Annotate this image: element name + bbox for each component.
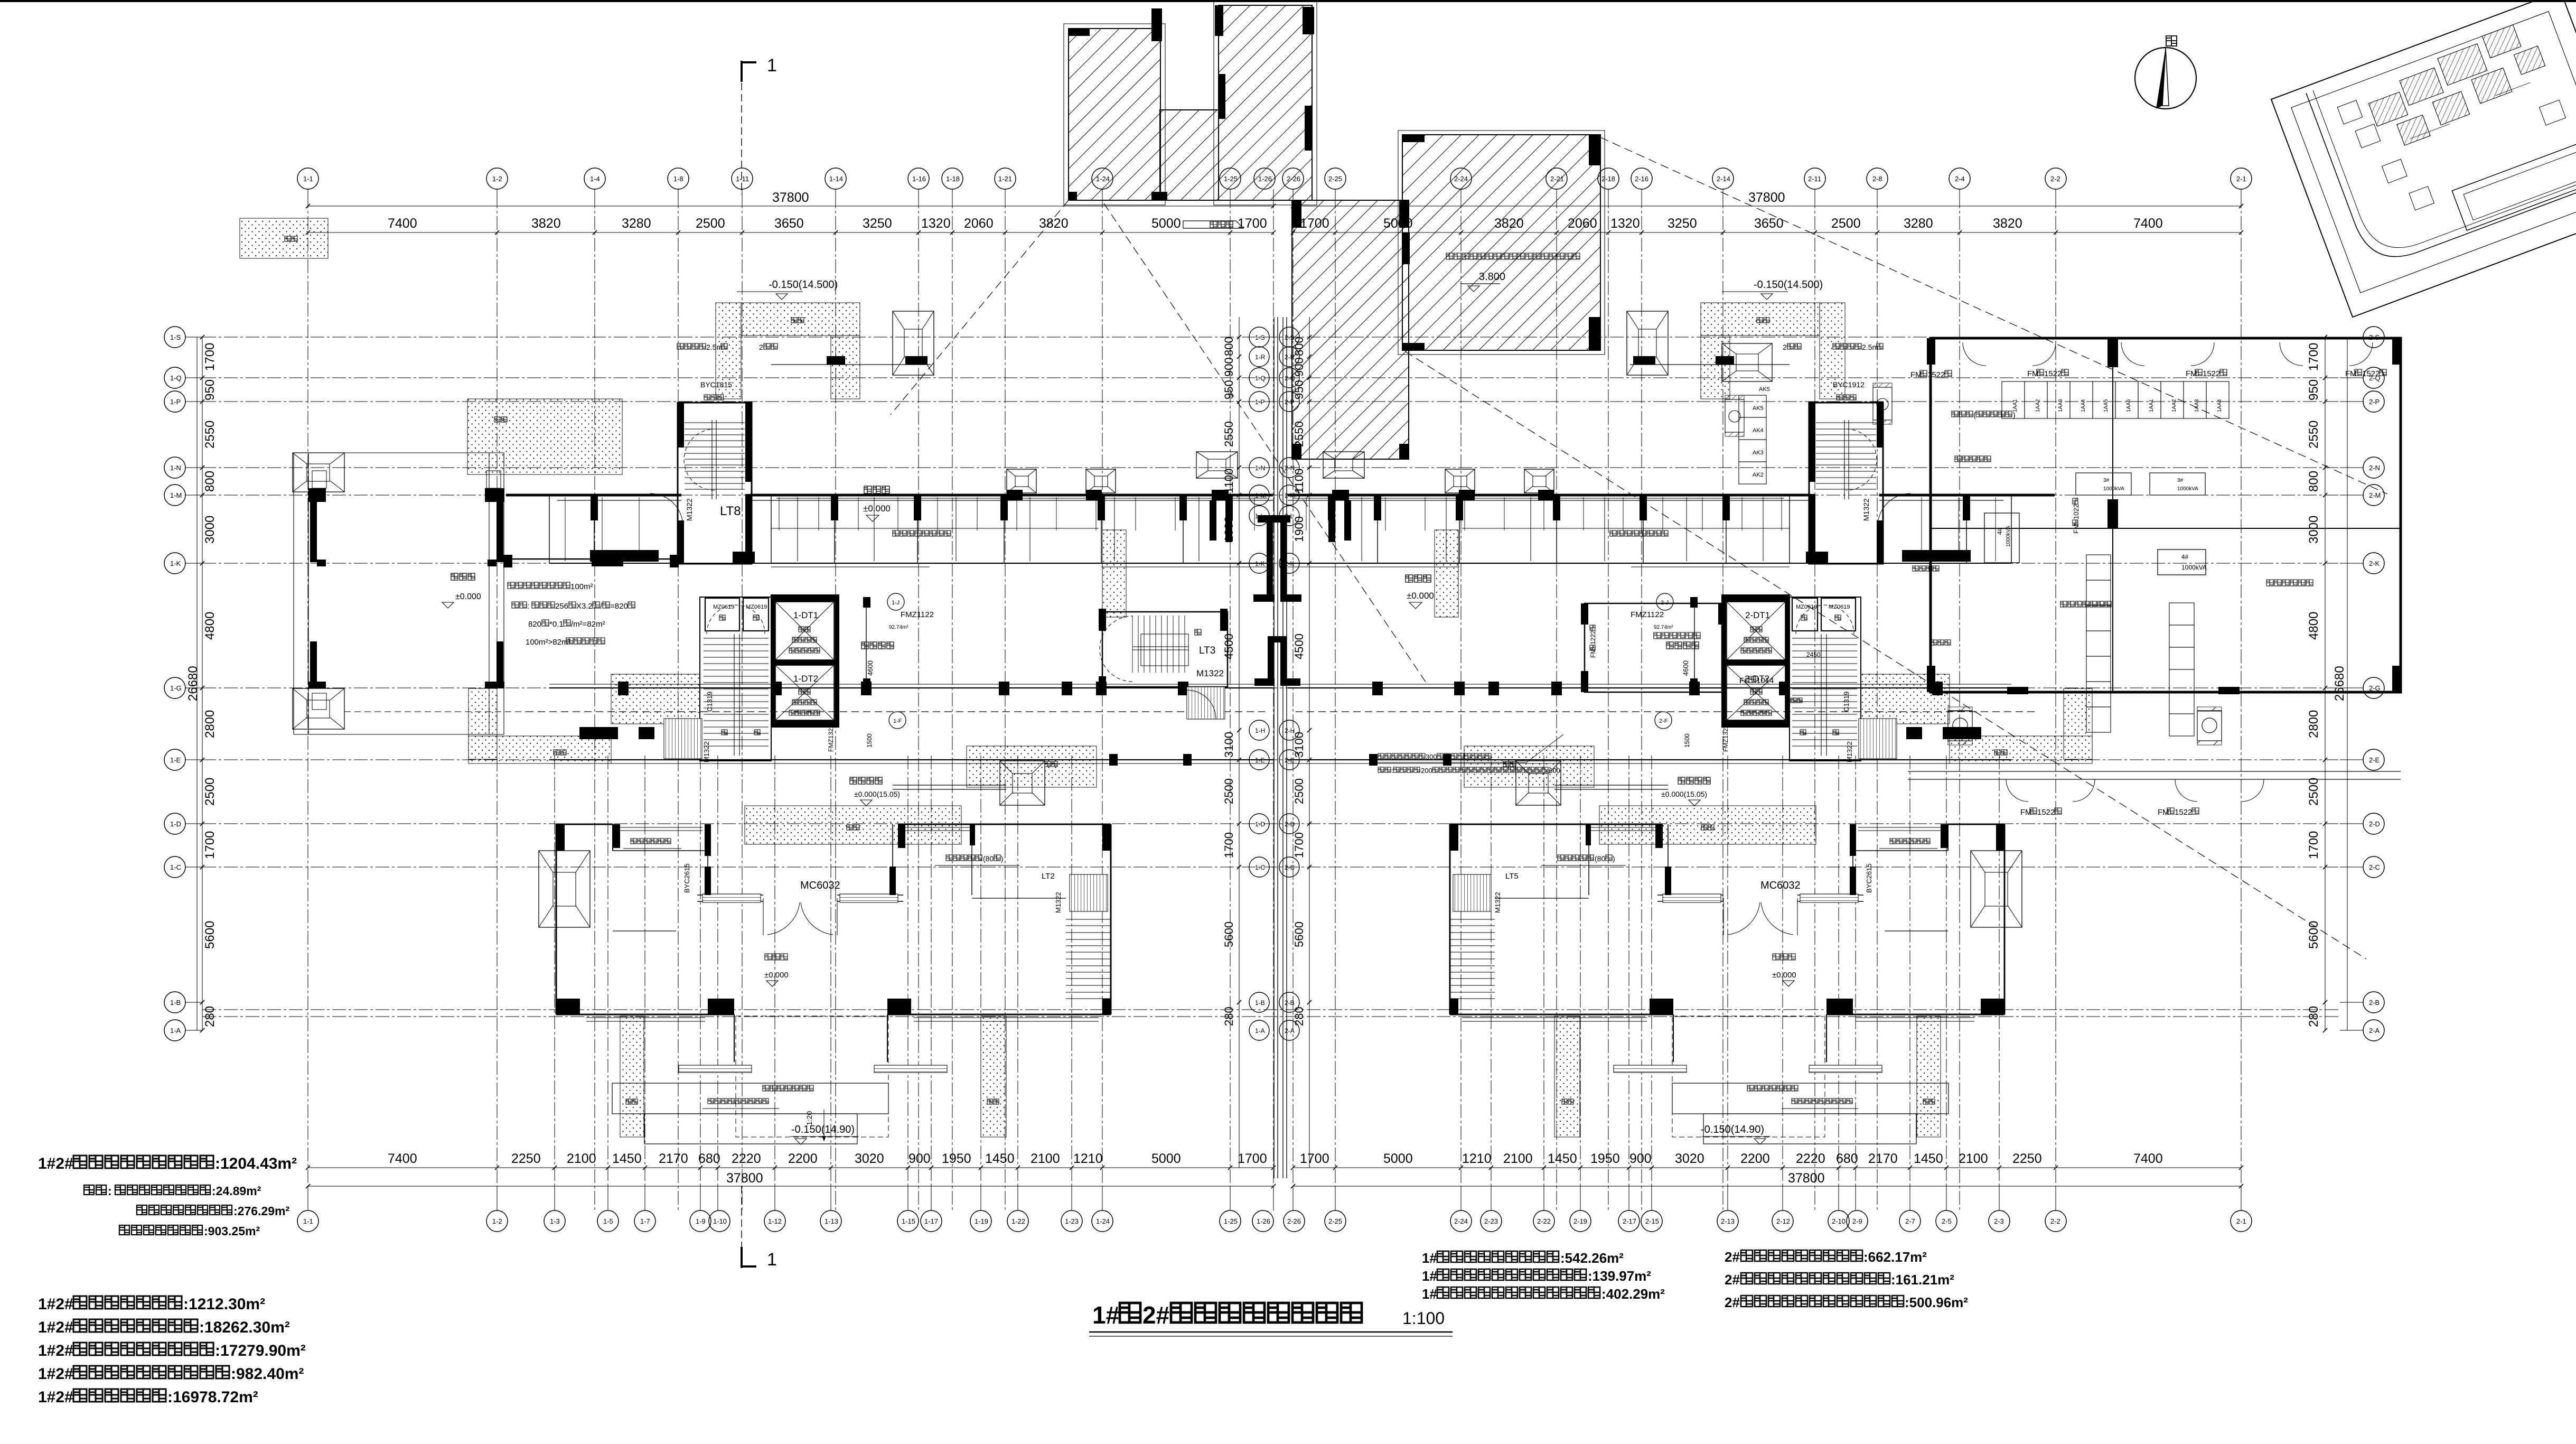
svg-text:1:100: 1:100 [1402,1309,1445,1328]
svg-text:1210: 1210 [1073,1151,1103,1166]
svg-text:1-F: 1-F [893,718,902,724]
svg-text:37800: 37800 [1788,1171,1825,1186]
svg-text:1-3: 1-3 [550,1217,560,1225]
svg-text:1-H: 1-H [1255,727,1265,734]
green stipple far-left above row S [240,218,328,258]
svg-text:MZ0619: MZ0619 [713,604,734,610]
svg-text:1-P: 1-P [1255,398,1265,406]
svg-text:3650: 3650 [774,216,804,231]
svg-text:2170: 2170 [1868,1151,1898,1166]
svg-text:1-15: 1-15 [902,1217,915,1225]
tower glazed front + MC6032 door [1797,895,1863,896]
svg-text:1#2#: 1#2# [38,1389,73,1406]
svg-text:FMZ1322: FMZ1322 [1722,724,1729,752]
svg-text:1700: 1700 [1222,832,1235,858]
svg-text:800: 800 [203,471,217,492]
svg-text:2-DT1: 2-DT1 [1745,610,1770,620]
lobby walls near core [1694,597,1695,687]
bottom dimension chain building 2 [1293,1167,2241,1168]
svg-text:3820: 3820 [1039,216,1069,231]
svg-text:2-1: 2-1 [2236,175,2246,183]
stair core LT8 [678,403,752,564]
svg-text:1-P: 1-P [170,398,181,406]
svg-text:(: ( [1973,411,1976,419]
svg-text:(80: (80 [1595,854,1605,863]
svg-text:BYC2615: BYC2615 [1865,863,1873,893]
tower bottom window sills [586,1017,705,1018]
svg-text:2-8: 2-8 [1872,175,1882,183]
svg-text:2#: 2# [1725,1272,1740,1288]
access hatch label [1210,221,1233,228]
svg-text:1500: 1500 [866,733,873,748]
tower open floor label [765,954,788,960]
corridor south dashed line [526,711,1265,712]
svg-text:2250: 2250 [511,1151,541,1166]
row E corridor line [1288,759,2011,760]
svg-text:2170: 2170 [659,1151,688,1166]
svg-text::161.21m²: :161.21m² [1891,1272,1954,1288]
colonnade window boxes [312,471,326,488]
svg-text:3650: 3650 [1754,216,1784,231]
svg-text:2-A: 2-A [1285,1027,1295,1035]
svg-text:LT3: LT3 [1199,645,1215,656]
open floor labels far-left [451,573,475,580]
entry hall label [850,777,882,784]
mid-plan grid bubbles J/F [1656,593,1673,610]
svg-text:4500: 4500 [1222,634,1235,659]
svg-text:2500: 2500 [1831,216,1861,231]
svg-text:MZ0619: MZ0619 [1829,604,1850,610]
svg-text:2-26: 2-26 [1287,1217,1301,1225]
svg-text:(80: (80 [983,854,994,863]
svg-text:MC6032: MC6032 [1760,880,1801,891]
svg-text::542.26m²: :542.26m² [1560,1250,1624,1266]
svg-text:LT5: LT5 [1505,872,1519,881]
upper wing top wall row M [506,494,681,497]
svg-text:2-D: 2-D [1285,821,1295,828]
svg-text:1-7: 1-7 [640,1217,650,1225]
svg-text:950: 950 [203,379,217,400]
svg-text:2100: 2100 [1959,1151,1988,1166]
svg-text:MZ0619: MZ0619 [746,604,767,610]
svg-text:820: 820 [528,620,541,629]
svg-text:1AA3: 1AA3 [2194,399,2200,412]
svg-text:): ) [2013,411,2016,419]
fire control centre room [1585,603,1722,692]
svg-text:1-23: 1-23 [1065,1217,1079,1225]
svg-text:2-P: 2-P [2369,398,2380,406]
central spine solid lines [1286,317,1287,1178]
upper band sill line [1293,498,1784,499]
svg-text:100m²: 100m² [570,582,593,591]
mid-plan grid bubbles J/F [887,593,904,610]
row K line east [1288,563,1790,564]
svg-text:2-C: 2-C [2369,863,2380,871]
svg-text:1AA4: 1AA4 [2081,399,2086,412]
svg-text:3020: 3020 [855,1151,884,1166]
svg-text:900: 900 [1629,1151,1652,1166]
svg-text:1450: 1450 [985,1151,1015,1166]
svg-text:LT8: LT8 [720,504,741,518]
svg-text:=820: =820 [610,602,628,611]
svg-text::1204.43m²: :1204.43m² [215,1155,297,1172]
upper fan units [1725,399,1744,432]
svg-text:4800: 4800 [2307,612,2321,640]
switch panels row [2002,381,2025,418]
svg-text:600: 600 [1549,767,1560,775]
svg-text:1100: 1100 [1222,469,1235,493]
svg-text:2-7: 2-7 [1905,1217,1915,1225]
svg-text:2-4: 2-4 [1955,175,1965,183]
row G wall chunks [1932,682,1943,695]
svg-text:3000: 3000 [203,516,217,544]
svg-text:92.74m²: 92.74m² [1654,625,1673,630]
svg-text:1-B: 1-B [1255,999,1265,1007]
horizontal grid lines (rows S..C) [202,337,2340,338]
svg-text:2-15: 2-15 [1645,1217,1659,1225]
panel column stacks [2086,555,2111,580]
central spine solid lines [1273,317,1275,1178]
svg-text:1320: 1320 [921,216,951,231]
svg-text:1-S: 1-S [1255,334,1265,341]
svg-text:2: 2 [759,343,763,351]
svg-text:1014: 1014 [1756,676,1774,685]
svg-text:2-E: 2-E [2369,756,2380,764]
svg-text:M1322: M1322 [1196,668,1224,678]
LT8 door [1878,493,1910,526]
svg-text:2-N: 2-N [2369,464,2380,472]
elevator 1-DT2 [1721,660,1790,665]
svg-text:4#: 4# [1996,527,2003,535]
svg-text:1700: 1700 [2307,831,2321,859]
open floor label [1610,530,1668,536]
row B grid line [202,1009,2340,1010]
svg-text:2-24: 2-24 [1454,1217,1468,1225]
site plan entrance labels [2410,124,2450,139]
svg-text::18262.30m²: :18262.30m² [199,1319,290,1336]
colonnade porch bottom [293,688,344,729]
svg-text:2220: 2220 [1796,1151,1825,1166]
lobby labels [861,642,894,649]
svg-text:5000: 5000 [1151,216,1181,231]
svg-text:1522: 1522 [2362,369,2380,378]
svg-text:280: 280 [1292,1007,1306,1026]
ramp strip near core [664,719,702,759]
stair T1 treads [1790,597,1861,761]
svg-text:1-A: 1-A [1255,1027,1265,1035]
svg-text:1AA4: 1AA4 [2217,399,2223,412]
vertical grid lines top set building 2 [2241,194,2242,1210]
row G corridor line [1288,687,2011,688]
svg-text:C1319: C1319 [706,692,714,712]
svg-text:1950: 1950 [942,1151,971,1166]
svg-text::402.29m²: :402.29m² [1601,1286,1665,1302]
svg-text:680: 680 [698,1151,720,1166]
svg-text:5600: 5600 [1222,921,1235,947]
svg-text:1-E: 1-E [170,756,181,764]
section cut mark bottom [741,1186,742,1268]
tower interior partitions [613,850,708,851]
svg-text:1-5: 1-5 [603,1217,613,1225]
svg-text:100m²>82m²: 100m²>82m² [526,638,570,647]
corridor wall chunks row H [579,727,618,739]
tower glazed front + MC6032 door [697,895,763,896]
svg-text:2-14: 2-14 [1717,175,1730,183]
svg-text:*0.1: *0.1 [549,620,564,629]
svg-text:2500: 2500 [203,778,217,806]
lobby walls near core [866,597,867,687]
upper band window mullions [1781,497,1782,530]
svg-text:-0.150(14.500): -0.150(14.500) [1754,279,1823,291]
svg-text:2-23: 2-23 [1484,1217,1498,1225]
svg-text:92.74m²: 92.74m² [889,625,908,630]
svg-text:AK4: AK4 [1753,427,1764,434]
svg-text:2500: 2500 [1222,778,1235,804]
colonnade porch top [293,453,344,492]
row K line east [771,563,1273,564]
svg-text:800: 800 [2307,471,2321,492]
porch bay at row Q [893,311,934,375]
svg-text:FM: FM [1589,649,1597,658]
substation lower canopy [1908,771,2401,772]
elevator 1-DT2 [771,660,839,665]
svg-text:1#: 1# [1422,1250,1437,1266]
corridor wall chunks row H [1943,727,1981,739]
dashed shadow diagonals [1104,203,1426,683]
greenery strip flanking centre [1435,530,1458,617]
svg-text:900: 900 [1222,357,1235,377]
svg-text:1700: 1700 [1238,216,1267,231]
green strips flanking entry [620,1016,644,1137]
svg-text:1-G: 1-G [170,684,182,692]
svg-text:1#: 1# [1422,1286,1437,1302]
row G wall chunks [618,682,629,695]
svg-text:900: 900 [908,1151,931,1166]
svg-text:1-D: 1-D [1255,821,1266,828]
stair LT2 [1453,874,1491,911]
corridor south greenery band [967,746,1097,787]
svg-text:1522: 1522 [2037,808,2055,817]
row E corridor line [549,759,1273,760]
svg-text:1-B: 1-B [170,999,181,1007]
svg-text:3020: 3020 [1675,1151,1704,1166]
svg-text:4600: 4600 [866,660,874,676]
svg-text::276.29m²: :276.29m² [233,1204,289,1218]
svg-text:1000kVA: 1000kVA [2181,564,2207,571]
tower open floor label [1773,954,1795,960]
svg-text:1#2#: 1#2# [38,1319,73,1336]
svg-text:2#: 2# [1725,1249,1740,1265]
svg-text:3#: 3# [2177,478,2184,483]
svg-text:1-18: 1-18 [946,175,960,183]
svg-text:1-J: 1-J [892,600,900,606]
colonnade heavy wall piers [310,502,317,562]
tower interior partitions [1853,850,1948,851]
svg-text:2100: 2100 [1503,1151,1533,1166]
centre spine dimension columns [1239,317,1240,1168]
svg-text:AK5: AK5 [1753,405,1764,412]
svg-text:2-K: 2-K [2369,560,2380,567]
svg-text:2-25: 2-25 [1328,1217,1342,1225]
entry canopy near core [893,785,1006,786]
svg-text:-0.150(14.90): -0.150(14.90) [1701,1124,1764,1135]
entry hall label [1678,777,1710,784]
svg-text:1522: 1522 [2203,369,2220,378]
svg-text::982.40m²: :982.40m² [231,1365,304,1383]
hatch outline offsets [1064,24,1165,205]
svg-text:FM: FM [2072,524,2080,534]
svg-text:2-16: 2-16 [1635,175,1648,183]
top dimension chain building 1 [308,232,1273,233]
site plan long building [2452,135,2576,230]
svg-text:1320: 1320 [1610,216,1640,231]
vertical partition walls rows M-K [549,495,550,563]
svg-text:1-C: 1-C [1255,864,1266,871]
tower corner wall chunks [1996,824,2004,851]
svg-text:C1319: C1319 [1842,692,1850,712]
svg-text:1-26: 1-26 [1257,1217,1270,1225]
svg-text:1-C: 1-C [170,863,181,871]
svg-text:±0.000(15.05): ±0.000(15.05) [854,790,900,798]
substation top doors [1963,342,1986,366]
entry canopy steps [612,1083,888,1114]
svg-text:MC6032: MC6032 [800,880,840,891]
svg-text:1AA2: 1AA2 [2035,399,2041,412]
tower outline [2004,824,2006,1014]
svg-text:2-13: 2-13 [1721,1217,1735,1225]
stair LT2 [1070,874,1108,911]
svg-text:1-17: 1-17 [924,1217,938,1225]
svg-text:2220: 2220 [732,1151,761,1166]
stair T1 treads [700,597,771,761]
svg-text:2550: 2550 [203,421,217,449]
svg-text:1:20: 1:20 [805,1111,813,1125]
vertical grid lines bottom-only set [554,756,555,1210]
tower lower walls and entry recess [1826,1014,1827,1062]
svg-text:): ) [1613,854,1615,863]
svg-text:680: 680 [1836,1151,1858,1166]
section cut mark top [741,61,742,194]
svg-text:37800: 37800 [726,1171,763,1186]
svg-text:2-A: 2-A [2369,1027,2380,1035]
stair core LT8 [1809,403,1883,564]
svg-text:2-1: 2-1 [2236,1217,2246,1225]
svg-text:2-B: 2-B [1285,999,1295,1007]
svg-text:AK3: AK3 [1753,450,1764,456]
svg-text:2.5m: 2.5m [1862,343,1878,351]
svg-text:1-19: 1-19 [975,1217,988,1225]
svg-text:1-N: 1-N [1255,464,1265,472]
vertical partition walls rows M-K [2011,495,2012,563]
louver label tower [631,839,671,844]
site plan hatched towers cluster [2368,92,2408,126]
svg-text:2-2: 2-2 [2050,175,2060,183]
svg-text::500.96m²: :500.96m² [1905,1294,1968,1310]
svg-text:3820: 3820 [531,216,561,231]
grid bubbles top row [297,168,319,189]
svg-text:4800: 4800 [203,612,217,640]
entry canopy steps [1672,1083,1949,1114]
double slab note [1446,253,1580,259]
svg-text:1-2: 1-2 [492,1217,502,1225]
elevator 1-DT1 [1721,594,1790,602]
grid bubbles left column [164,327,185,348]
lobby labels [1666,642,1699,649]
svg-text:2500: 2500 [2307,778,2321,806]
upper band partitions [1763,497,1764,561]
svg-text:2-22: 2-22 [1537,1217,1551,1225]
svg-text::: : [1391,767,1393,775]
svg-text:2250: 2250 [2012,1151,2042,1166]
core of tower: utility shafts MZ0619 [705,598,739,631]
greenery stipple SW of wing [2064,688,2092,759]
upper band mid wall [1462,528,1790,529]
svg-text:26680: 26680 [186,666,200,701]
louver label tower [1890,839,1930,844]
svg-text:1000kVA: 1000kVA [2177,486,2198,492]
svg-text:1#: 1# [1422,1268,1437,1284]
upper wing top wall row M [1879,494,2055,497]
svg-text:1-12: 1-12 [768,1217,782,1225]
row A grid line [202,1016,2340,1017]
svg-text:2-12: 2-12 [1776,1217,1790,1225]
svg-text:AK2: AK2 [1753,472,1764,478]
svg-text:M1322: M1322 [685,498,694,521]
svg-text:1-1: 1-1 [303,1217,313,1225]
svg-text:1-10: 1-10 [713,1217,727,1225]
svg-text:5600: 5600 [203,921,217,949]
central bay porches [1196,452,1238,478]
svg-text:5000: 5000 [1151,1151,1181,1166]
svg-text:1-2: 1-2 [492,175,502,183]
svg-text:1700: 1700 [1238,1151,1267,1166]
svg-text:280: 280 [203,1006,217,1027]
svg-text:1700: 1700 [2307,343,2321,371]
svg-text:±0.000: ±0.000 [863,504,891,514]
substation room labels [2266,580,2313,586]
svg-text:26680: 26680 [2333,666,2347,701]
upper wing wall chunks below row M [591,495,598,520]
svg-text:1100: 1100 [1292,469,1306,493]
svg-text:1700: 1700 [203,831,217,859]
svg-text:1-M: 1-M [170,491,182,499]
svg-text:4#: 4# [2181,553,2189,561]
svg-text:1-14: 1-14 [829,175,843,183]
svg-text:FMZ1122: FMZ1122 [1631,610,1664,619]
grid bubbles centre pairs [1249,327,1269,347]
svg-text:1-R: 1-R [1255,353,1266,361]
svg-text:1-Q: 1-Q [170,374,182,382]
svg-text::: : [527,602,529,611]
svg-text:2-B: 2-B [2369,999,2380,1007]
ramp strip near core [1859,719,1897,759]
svg-text:1000kVA: 1000kVA [2103,486,2124,492]
svg-text:300: 300 [1426,753,1437,761]
row G corridor line [549,687,1273,688]
greenery stipple mid corridor [745,806,961,844]
green strips flanking entry [1917,1016,1941,1137]
svg-text:1-25: 1-25 [1224,1217,1238,1225]
svg-text:1-24: 1-24 [1096,1217,1110,1225]
svg-text:1-K: 1-K [170,560,181,567]
svg-text:2450: 2450 [1806,651,1821,658]
porch bay at row Q [1627,311,1668,375]
svg-text:1#2#: 1#2# [38,1155,73,1172]
transformers [1984,513,2019,563]
svg-text:M1322: M1322 [1054,892,1062,913]
svg-text:5600: 5600 [2307,921,2321,949]
upper wing wall chunks below row M [1963,495,1970,520]
